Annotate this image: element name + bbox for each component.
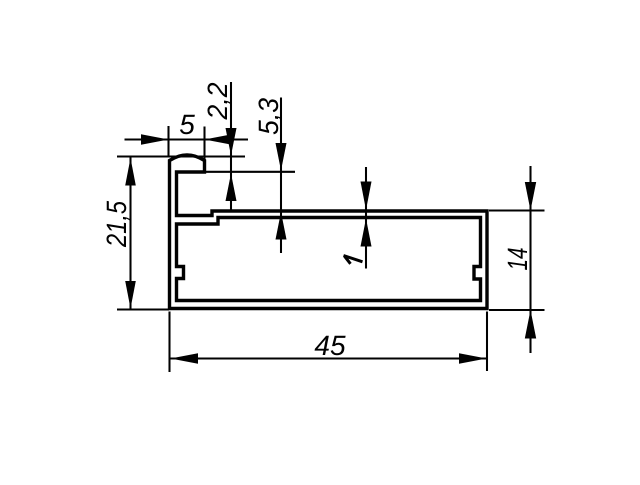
svg-text:2,2: 2,2 (202, 82, 233, 120)
svg-text:21,5: 21,5 (101, 201, 132, 248)
svg-text:45: 45 (314, 330, 346, 361)
svg-text:14: 14 (502, 248, 533, 271)
svg-text:5: 5 (179, 109, 195, 140)
svg-text:5,3: 5,3 (253, 98, 284, 135)
